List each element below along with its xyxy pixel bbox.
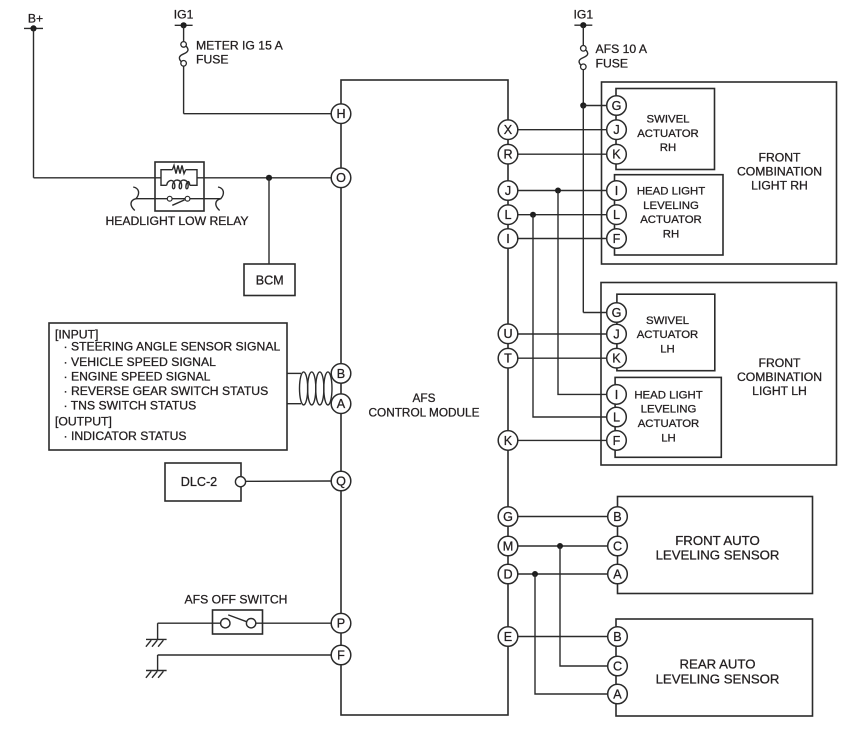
svg-text:F: F [337,648,345,662]
svg-text:COMBINATION: COMBINATION [737,370,822,384]
wire E to rear sensor B [518,636,608,638]
svg-text:J: J [613,327,619,341]
module pin X [498,120,518,140]
wire to module pin H [184,113,332,115]
rear sensor pin C [608,656,628,676]
wire meter fuse down [183,66,185,114]
svg-text:FRONT AUTO: FRONT AUTO [675,533,760,548]
svg-text:T: T [504,352,512,366]
wire branch L down to leveling LH L [533,215,607,417]
fuse AFS 10 A [579,46,588,70]
junction on D wire [532,571,538,577]
svg-text:D: D [503,567,512,581]
svg-text:HEADLIGHT LOW RELAY: HEADLIGHT LOW RELAY [105,214,248,228]
leveling LH pin F [607,431,627,451]
ground for AFS off switch [146,639,167,646]
module pin R [498,144,518,164]
svg-text:J: J [505,184,511,198]
svg-text:I: I [506,232,510,246]
swivel actuator RH box [616,89,715,170]
wire K to leveling LH F [518,439,607,441]
head light leveling actuator LH box [615,377,721,457]
svg-text:K: K [612,148,621,162]
svg-text:· INDICATOR STATUS: · INDICATOR STATUS [64,429,187,443]
wire feed to swivel RH pin G [583,105,607,107]
switch lever [228,615,246,622]
svg-text:G: G [503,510,513,524]
wire module pin F to ground [158,654,332,656]
relay switch lever [172,200,184,205]
svg-text:· VEHICLE SPEED SIGNAL: · VEHICLE SPEED SIGNAL [64,355,217,369]
svg-text:ACTUATOR: ACTUATOR [637,329,699,341]
svg-text:IG1: IG1 [573,8,593,22]
svg-text:· TNS SWITCH STATUS: · TNS SWITCH STATUS [64,399,197,413]
svg-text:B: B [613,510,621,524]
leveling LH pin I [607,385,627,405]
svg-text:F: F [613,232,621,246]
swivel LH pin J [607,324,627,344]
junction on L wire [530,212,536,218]
svg-text:HEAD LIGHT: HEAD LIGHT [634,389,702,401]
relay switch contact wire [136,198,220,200]
relay contact right [185,196,190,201]
continuation mark right [216,187,224,211]
svg-text:LEVELING: LEVELING [641,404,697,416]
svg-text:LEVELING SENSOR: LEVELING SENSOR [656,548,780,563]
svg-text:· REVERSE GEAR SWITCH STATUS: · REVERSE GEAR SWITCH STATUS [64,384,269,398]
headlight low relay K1 [105,162,248,228]
wire J to leveling RH I [518,190,607,192]
front combination light RH outer box [602,82,837,264]
wire AFS fuse down to junction [582,70,584,106]
svg-text:HEAD LIGHT: HEAD LIGHT [637,185,705,197]
svg-text:CONTROL MODULE: CONTROL MODULE [369,405,480,419]
svg-text:LEVELING SENSOR: LEVELING SENSOR [656,671,780,686]
twisted pair symbol [300,372,333,405]
svg-text:DLC-2: DLC-2 [181,475,217,489]
wire B+ vertical feed [33,28,35,177]
svg-text:FUSE: FUSE [596,57,629,71]
svg-text:IG1: IG1 [174,8,194,22]
module pin K [498,431,518,451]
module pin O [331,168,351,188]
AFS off switch [158,592,332,634]
svg-text:A: A [337,397,346,411]
wire I to leveling RH F [518,238,607,240]
rear sensor pin B [608,627,628,647]
wire feed to swivel LH pin G [583,312,607,314]
relay resistor [172,165,185,173]
module pin T [498,348,518,368]
module pin I [498,229,518,249]
module pin G [498,507,518,527]
head light leveling actuator RH box [615,175,724,255]
swivel actuator LH box [617,294,715,371]
svg-text:[OUTPUT]: [OUTPUT] [55,415,112,429]
svg-text:· ENGINE SPEED SIGNAL: · ENGINE SPEED SIGNAL [64,370,211,384]
svg-text:AFS: AFS [413,391,436,405]
leveling RH pin F [607,229,627,249]
ground for pin F [146,671,167,678]
svg-text:L: L [613,410,620,424]
front sensor pin A [608,564,628,584]
DLC-2 connector [165,463,246,501]
svg-text:A: A [613,687,622,701]
svg-text:ACTUATOR: ACTUATOR [638,418,700,430]
svg-text:METER IG 15 A: METER IG 15 A [196,39,284,53]
svg-text:X: X [504,123,513,137]
input output signal list box [49,323,287,450]
swivel RH pin J [607,120,627,140]
wire B+ to headlight low relay [34,177,162,179]
leveling LH pin L [607,407,627,427]
svg-text:· STEERING ANGLE SENSOR SIGNAL: · STEERING ANGLE SENSOR SIGNAL [64,340,281,354]
swivel LH pin K [607,348,627,368]
module pin L [498,205,518,225]
wire IG1 to AFS fuse [582,25,584,45]
module pin B [331,364,351,384]
wire feed down to swivel LH [582,106,584,313]
power terminal B+ [24,11,43,31]
wire G to front sensor B [518,516,608,518]
svg-text:C: C [613,659,622,673]
wire T to swivel LH K [518,357,607,359]
rear auto leveling sensor box [616,619,813,716]
svg-text:O: O [336,171,346,185]
svg-text:FRONT: FRONT [759,150,802,164]
svg-text:I: I [615,388,619,402]
wire down to BCM [268,178,270,264]
wire relay to module pin O [197,177,331,179]
junction node to BCM [266,175,272,181]
svg-text:RH: RH [663,229,679,241]
svg-text:SWIVEL: SWIVEL [646,315,689,327]
wire DLC-2 to module pin Q [246,480,332,482]
front sensor pin B [608,507,628,527]
svg-text:FRONT: FRONT [759,356,802,370]
wire D to front sensor A [518,573,608,575]
power terminal IG1 left [174,8,194,29]
svg-text:L: L [613,208,620,222]
svg-text:ACTUATOR: ACTUATOR [640,214,702,226]
leveling RH pin I [607,181,627,201]
module pin H [331,104,351,124]
svg-text:LH: LH [660,343,675,355]
svg-text:LIGHT RH: LIGHT RH [751,178,808,192]
svg-text:R: R [503,148,512,162]
svg-text:AFS 10 A: AFS 10 A [596,42,648,56]
wire branch D down to rear sensor A [535,574,608,694]
wire branch J down to leveling LH I [558,191,607,395]
module pin D [498,564,518,584]
module pin U [498,324,518,344]
wire input box to twist lower [287,403,301,405]
leveling RH pin L [607,205,627,225]
svg-text:J: J [613,123,619,137]
front combination light LH outer box [601,283,837,466]
module pin J [498,181,518,201]
wire IG1 to meter fuse [183,25,185,42]
svg-text:P: P [337,617,345,631]
label meter fuse [196,39,284,67]
wire L to leveling RH L [518,214,607,216]
label AFS fuse [596,42,648,71]
module pin M [498,536,518,556]
svg-text:FUSE: FUSE [196,53,229,67]
module pin A [331,394,351,414]
svg-text:K: K [612,352,621,366]
svg-text:G: G [612,99,622,113]
continuation mark left [131,187,139,211]
wire M to front sensor C [518,545,608,547]
front sensor pin C [608,536,628,556]
BCM [244,264,295,296]
wire input box to twist [287,372,301,374]
svg-text:ACTUATOR: ACTUATOR [637,128,699,140]
wire U to swivel LH J [518,333,607,335]
power terminal IG1 right [573,8,593,29]
svg-text:A: A [613,567,622,581]
svg-text:M: M [503,539,514,553]
wire R to swivel RH K [518,153,607,155]
relay contact left [167,196,172,201]
front auto leveling sensor box [618,497,813,594]
swivel RH pin K [607,144,627,164]
junction on J wire [555,188,561,194]
wire switch to ground [157,623,159,639]
junction on M wire [557,543,563,549]
fuse METER IG 15 A [179,42,188,66]
module pin P [331,613,351,633]
wire branch M down to rear sensor C [560,546,608,666]
svg-text:C: C [613,539,622,553]
svg-text:K: K [504,434,513,448]
svg-text:LH: LH [661,433,676,445]
module pin F [331,645,351,665]
junction fuse feed [580,102,586,108]
svg-text:AFS OFF SWITCH: AFS OFF SWITCH [185,592,288,606]
svg-text:LIGHT LH: LIGHT LH [752,384,807,398]
svg-text:Q: Q [336,474,346,488]
svg-text:B: B [613,630,621,644]
svg-text:F: F [613,434,621,448]
svg-text:B+: B+ [28,11,43,25]
svg-text:REAR AUTO: REAR AUTO [680,657,756,672]
svg-text:COMBINATION: COMBINATION [737,164,822,178]
svg-text:SWIVEL: SWIVEL [646,114,689,126]
svg-text:H: H [336,107,345,121]
AFS control module U1 [341,80,508,715]
svg-text:E: E [504,630,512,644]
svg-text:G: G [612,306,622,320]
wire X to swivel RH J [518,129,607,131]
svg-text:I: I [615,184,619,198]
switch wire left [158,622,221,624]
relay coil [167,180,190,189]
svg-text:RH: RH [660,142,676,154]
svg-text:BCM: BCM [256,274,284,288]
svg-text:U: U [503,327,512,341]
rear sensor pin A [608,684,628,704]
module pin E [498,627,518,647]
svg-text:LEVELING: LEVELING [643,200,699,212]
svg-text:B: B [337,367,345,381]
swivel RH pin G [607,96,627,116]
swivel LH pin G [607,303,627,323]
switch contact right [246,619,255,628]
module pin Q [331,471,351,491]
switch contact left [221,619,230,628]
svg-text:L: L [504,208,511,222]
switch wire right [256,622,331,624]
